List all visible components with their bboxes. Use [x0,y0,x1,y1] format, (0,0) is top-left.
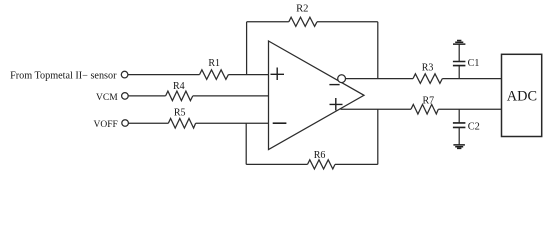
capacitor C2 [453,123,466,128]
ADC block [502,54,542,136]
svg-text:R3: R3 [422,63,434,74]
op-amp U1 (fully differential) triangle [269,41,365,150]
wire: R2 right vertical to output line [377,22,379,79]
wire: C2 stub from bottom output line [458,109,460,123]
wire: VCM terminal to R4 [128,95,166,97]
op-amp + output sign [330,98,343,110]
svg-text:R4: R4 [173,81,185,92]
wire: R5 to op-amp - input [196,122,269,124]
svg-text:C2: C2 [468,121,480,132]
wire: R4 to op-amp VCM input [193,95,269,97]
wire: top output from bubble to R3 [346,78,414,80]
svg-text:ADC: ADC [507,88,537,104]
terminal VCM [122,93,129,100]
wire: C1 to ground stub [458,44,460,61]
resistor R6 [308,160,336,169]
resistor R3 [413,74,442,84]
wire: R7 to ADC [438,108,501,110]
resistor R5 [168,119,195,129]
op-amp - output sign [329,84,339,86]
svg-text:VCM: VCM [96,93,118,103]
svg-text:From Topmetal II− sensor: From Topmetal II− sensor [10,71,117,82]
svg-text:R2: R2 [296,3,308,14]
resistor R7 [411,104,438,114]
terminal: From Topmetal II- sensor [121,71,128,78]
wire: R6 right vertical to bottom output line [377,109,379,164]
ground (above C1) [453,41,465,45]
svg-text:VOFF: VOFF [94,120,118,130]
wire: R6 bottom horizontal right segment [335,163,378,165]
capacitor C1 [453,62,466,66]
svg-text:R6: R6 [314,150,326,161]
wire: R1 to op-amp + input [228,74,268,76]
svg-text:R5: R5 [174,107,186,118]
wire: C1 stub from top output line [458,66,460,79]
wire: R3 to ADC [442,78,501,80]
wire: R2 top horizontal right segment [317,21,378,23]
wire: R6 bottom horizontal left segment [246,163,307,165]
wire: VOFF terminal to R5 [128,122,168,124]
wire: C2 to ground stub [458,127,460,144]
wire: input 1 from sensor terminal to R1 [128,74,200,76]
op-amp inverted output bubble [338,75,346,83]
resistor R2 [289,17,317,26]
wire: R2 top horizontal left segment [247,21,289,23]
op-amp + input sign [271,68,285,81]
svg-text:R7: R7 [422,95,434,106]
op-amp - input sign [273,122,287,124]
wire: bottom output from triangle to R7 [341,108,412,110]
svg-text:C1: C1 [468,58,480,69]
resistor R4 [166,91,193,101]
ground (below C2) [453,145,465,149]
svg-text:R1: R1 [208,58,220,69]
wire: R2 left vertical from input node [246,22,248,75]
resistor R1 [200,70,229,80]
terminal VOFF [122,120,129,127]
wire: R6 left vertical from inverting input node [245,123,247,164]
